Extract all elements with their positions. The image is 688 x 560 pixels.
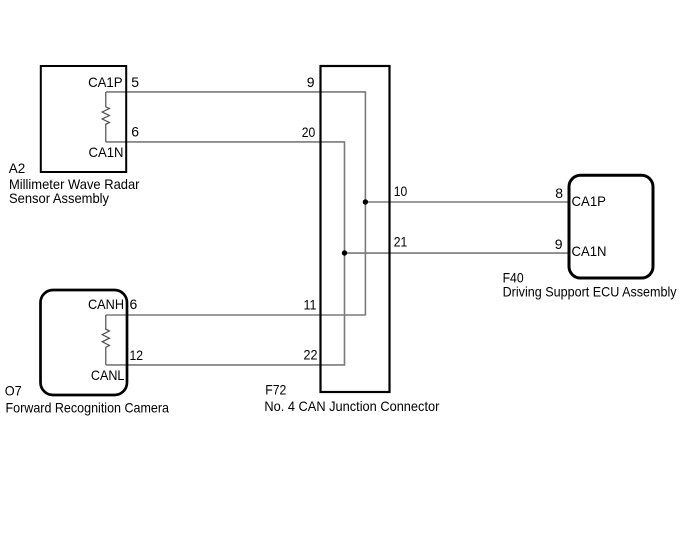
wire CA1P (A2 pin 5 to F72 pin 9) xyxy=(106,91,366,93)
svg-text:No. 4 CAN Junction Connector: No. 4 CAN Junction Connector xyxy=(264,398,439,414)
svg-text:22: 22 xyxy=(304,347,318,363)
svg-text:11: 11 xyxy=(304,297,317,313)
wire CANH (O7 pin 6 to F72 pin 11) xyxy=(106,314,366,316)
box A2 Millimeter Wave Radar Sensor Assembly xyxy=(41,66,126,172)
svg-text:8: 8 xyxy=(555,185,563,201)
svg-text:6: 6 xyxy=(131,124,139,140)
resistor (O7 internal termination) xyxy=(102,315,109,365)
wire vertical bus CA1N inside F72 (pin 20 to pin 22) xyxy=(344,141,346,365)
svg-text:CANH: CANH xyxy=(88,296,124,312)
junction dot at F72 pin 10 tap xyxy=(363,199,368,204)
svg-text:Forward Recognition Camera: Forward Recognition Camera xyxy=(6,400,170,416)
svg-text:CA1P: CA1P xyxy=(572,193,607,209)
svg-text:O7: O7 xyxy=(5,383,22,399)
svg-text:5: 5 xyxy=(131,74,139,90)
svg-text:A2: A2 xyxy=(9,160,26,176)
wire CANL (O7 pin 12 to F72 pin 22) xyxy=(106,364,345,366)
svg-text:9: 9 xyxy=(555,236,563,252)
svg-text:6: 6 xyxy=(130,296,138,312)
svg-text:Driving Support ECU Assembly: Driving Support ECU Assembly xyxy=(503,284,677,300)
svg-text:CA1N: CA1N xyxy=(89,144,124,160)
svg-text:CANL: CANL xyxy=(91,367,125,383)
wire F72 pin 21 to F40 pin 9 xyxy=(345,252,570,254)
svg-text:20: 20 xyxy=(302,124,316,140)
resistor (A2 internal termination) xyxy=(102,92,109,142)
wire vertical bus CA1P inside F72 (pin 9 to pin 11) xyxy=(364,91,366,315)
box F72 No. 4 CAN Junction Connector xyxy=(321,66,390,392)
svg-text:Sensor Assembly: Sensor Assembly xyxy=(9,190,109,206)
box O7 Forward Recognition Camera xyxy=(41,290,128,395)
svg-text:CA1P: CA1P xyxy=(88,74,123,90)
wire F72 pin 10 to F40 pin 8 xyxy=(365,201,569,203)
svg-text:21: 21 xyxy=(394,234,408,250)
svg-text:F72: F72 xyxy=(265,381,286,397)
svg-text:10: 10 xyxy=(394,183,408,199)
box F40 Driving Support ECU Assembly xyxy=(569,175,653,278)
junction dot at F72 pin 21 tap xyxy=(342,250,347,255)
svg-text:12: 12 xyxy=(130,347,144,363)
wire CA1N (A2 pin 6 to F72 pin 20) xyxy=(106,141,345,143)
svg-text:CA1N: CA1N xyxy=(572,243,607,259)
svg-text:9: 9 xyxy=(307,74,315,90)
